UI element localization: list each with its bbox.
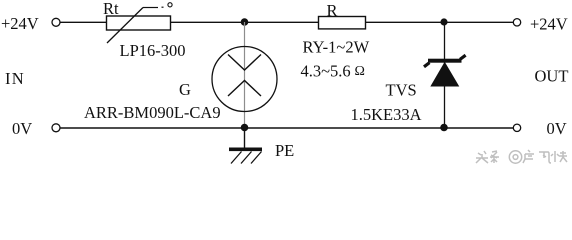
svg-text:IN: IN — [5, 69, 25, 88]
wire top rail: left terminal to Rt — [60, 21, 106, 23]
gas discharge tube G upper electrode chevron — [228, 55, 261, 71]
node junction bottom of G / PE — [241, 124, 249, 132]
watermark emblem (embossed gray) — [476, 150, 567, 163]
thermistor Rt degree mark — [168, 3, 172, 7]
thermistor Rt tail dot — [162, 6, 164, 8]
svg-text:+24V: +24V — [530, 15, 568, 34]
ground PE bar — [229, 148, 262, 152]
watermark glyph lu — [523, 150, 534, 163]
svg-text:OUT: OUT — [535, 67, 569, 86]
svg-text:G: G — [179, 80, 191, 99]
watermark glyph tiao — [490, 151, 499, 163]
svg-text:TVS: TVS — [386, 81, 417, 100]
svg-text:LP16-300: LP16-300 — [120, 41, 186, 60]
thermistor Rt horizontal tail — [143, 7, 158, 9]
terminal +24V OUT (top-right) — [513, 19, 520, 26]
svg-text:Ω: Ω — [355, 64, 365, 79]
terminal +24V IN (top-left) — [52, 18, 60, 26]
watermark glyph at — [509, 151, 521, 163]
gas discharge tube G lower electrode chevron — [228, 81, 261, 97]
thermistor Rt body — [107, 16, 171, 30]
svg-text:ARR-BM090L-CA9: ARR-BM090L-CA9 — [84, 103, 221, 122]
svg-text:0V: 0V — [12, 119, 32, 138]
svg-text:+24V: +24V — [1, 14, 39, 33]
node junction bottom of TVS — [440, 124, 448, 132]
wire top rail: R to right terminal — [366, 21, 514, 23]
wire G branch (vertical, gray) — [244, 22, 246, 128]
svg-text:1.5KE33A: 1.5KE33A — [351, 105, 422, 124]
terminal 0V (bottom-left) — [52, 124, 60, 132]
TVS diode D1 cathode right tick — [460, 55, 466, 59]
TVS diode D1 anode triangle — [431, 63, 458, 86]
node junction top of G — [241, 18, 249, 26]
wire TVS branch vertical — [444, 22, 446, 128]
svg-text:Rt: Rt — [103, 0, 119, 18]
ground PE hatch 3 — [251, 152, 262, 164]
svg-text:0V: 0V — [547, 119, 567, 138]
TVS diode D1 cathode bar — [428, 59, 462, 63]
watermark glyph tou — [476, 151, 488, 163]
gas discharge tube G body — [212, 47, 277, 112]
svg-text:PE: PE — [275, 141, 294, 160]
thermistor Rt diagonal stroke — [107, 8, 143, 44]
resistor R body — [319, 17, 366, 29]
wire top rail: Rt to R — [171, 21, 319, 23]
ground PE hatch 2 — [241, 152, 252, 164]
node junction top of TVS — [440, 18, 447, 25]
svg-text:RY-1~2W: RY-1~2W — [303, 38, 370, 57]
wire bottom rail — [60, 127, 513, 129]
wire PE drop — [244, 128, 246, 149]
svg-text:R: R — [327, 1, 338, 20]
svg-text:4.3~5.6: 4.3~5.6 — [301, 62, 351, 81]
TVS diode D1 cathode left tick — [424, 63, 430, 67]
watermark glyph fei — [539, 152, 551, 163]
ground PE hatch 1 — [231, 152, 242, 164]
terminal 0V (bottom-right) — [513, 124, 520, 131]
watermark glyph kuai — [551, 151, 567, 162]
